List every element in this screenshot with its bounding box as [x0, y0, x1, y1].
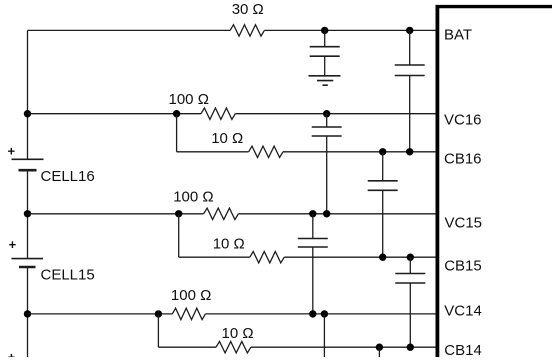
node: CB14 to C7 (below, cut off) [376, 344, 383, 351]
svg-text:CB16: CB16 [444, 150, 482, 167]
svg-text:100 Ω: 100 Ω [169, 91, 209, 108]
wire: CB16 net [177, 151, 249, 153]
wire: CB15 net [179, 256, 250, 258]
IC body top edge [436, 5, 552, 8]
node: VC16 filter split [173, 110, 180, 117]
node: C1 at CB16 [406, 148, 413, 155]
wire: VC15 net [28, 213, 204, 215]
wire: VC14 cap chain going off bottom edge [323, 314, 325, 357]
wire: VC16 net [28, 113, 202, 115]
capacitor C2 VC16-VC15 [326, 114, 328, 127]
svg-text:VC15: VC15 [445, 214, 483, 231]
node: VC16 to C2 [323, 110, 330, 117]
node: C2 at VC15 [323, 210, 330, 217]
node: VC14 to C6 (below, cut off) [321, 310, 328, 317]
svg-text:100 Ω: 100 Ω [173, 189, 213, 206]
resistor R_CB16 10ohm [249, 146, 283, 157]
svg-text:CB15: CB15 [444, 258, 482, 275]
svg-text:10 Ω: 10 Ω [211, 130, 243, 147]
capacitor C3 CB16-CB15 [382, 152, 384, 181]
node: VC14 filter split [155, 310, 162, 317]
resistor R_CB14 10ohm [216, 342, 251, 353]
node: CB16 to C3 [379, 148, 386, 155]
resistor R_VC14 100ohm [172, 308, 205, 319]
capacitor C4 VC15-VC14 [312, 214, 314, 239]
svg-text:+: + [9, 237, 17, 252]
svg-text:CB14: CB14 [444, 342, 482, 357]
node: C3 at CB15 [379, 254, 386, 261]
IC body (battery monitor) left edge [435, 5, 439, 357]
wire: VC14 net [28, 313, 173, 315]
svg-text:30 Ω: 30 Ω [232, 1, 264, 18]
node: VC15 tap on rail [24, 210, 31, 217]
svg-text:VC14: VC14 [444, 302, 482, 319]
node: BAT to decoupling cap [321, 27, 328, 34]
resistor R_CB15 10ohm [250, 252, 284, 263]
resistor R_VC16 100ohm [201, 108, 235, 119]
capacitor C1 BAT-CB16 [409, 30, 411, 65]
node: VC15 filter split [175, 210, 182, 217]
svg-text:10 Ω: 10 Ω [222, 325, 254, 342]
node: CB15 to C5 [407, 254, 414, 261]
node: VC16 tap on rail [24, 110, 31, 117]
svg-text:CELL16: CELL16 [41, 168, 95, 185]
wire: BAT net from pack+ to BAT pin [28, 29, 231, 31]
wire: branch down to CB15 [178, 214, 180, 257]
node: VC14 tap on rail [24, 310, 31, 317]
wire: branch down to CB14 [157, 314, 159, 347]
wire: branch down to CB16 [176, 114, 178, 152]
svg-text:CELL15: CELL15 [41, 267, 95, 284]
wire: CB14 cap chain going off bottom edge [378, 347, 380, 357]
wire: left battery stack rail [27, 30, 29, 159]
resistor R_BAT 30ohm [230, 25, 264, 36]
node: C4 at VC14 [309, 310, 316, 317]
svg-text:BAT: BAT [444, 27, 472, 44]
node: BAT to C_BAT-CB16 [406, 27, 413, 34]
node: VC15 to C4 [309, 210, 316, 217]
resistor R_VC15 100ohm [204, 208, 239, 219]
svg-text:+: + [8, 144, 16, 159]
capacitor C_BAT to ground [324, 30, 326, 46]
wire: CB14 net [158, 346, 216, 348]
ground [309, 75, 341, 77]
svg-text:10 Ω: 10 Ω [213, 235, 245, 252]
svg-text:100 Ω: 100 Ω [171, 287, 211, 304]
svg-text:+: + [8, 350, 16, 358]
svg-text:VC16: VC16 [444, 111, 482, 128]
capacitor C5 CB15-CB14 [409, 257, 411, 273]
node: C5 at CB14 [407, 344, 414, 351]
